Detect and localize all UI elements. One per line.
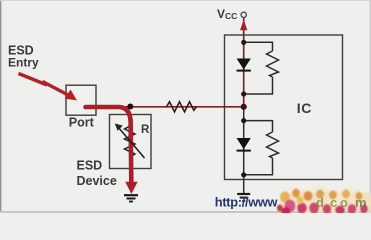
svg-text:http://www: http://www <box>215 195 278 210</box>
svg-text:R: R <box>141 124 150 136</box>
svg-text:Device: Device <box>77 174 117 188</box>
svg-text:c: c <box>330 195 337 210</box>
svg-text:d: d <box>316 195 324 210</box>
svg-text:ESD: ESD <box>77 159 103 173</box>
svg-text:m: m <box>355 195 367 210</box>
svg-text:Port: Port <box>69 116 95 130</box>
svg-text:Entry: Entry <box>8 56 39 70</box>
svg-text:IC: IC <box>297 100 312 116</box>
svg-text:o: o <box>340 195 348 210</box>
